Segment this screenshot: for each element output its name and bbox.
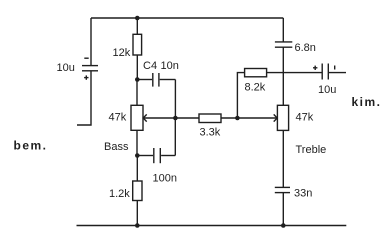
capacitor 10u output: [313, 64, 335, 80]
svg-text:10n: 10n: [161, 60, 179, 72]
wire left rail upper: [90, 18, 92, 66]
svg-text:100n: 100n: [153, 173, 177, 185]
svg-text:bem.: bem.: [14, 139, 48, 153]
svg-text:10u: 10u: [57, 62, 75, 74]
wire left rail lower to input stub: [77, 71, 91, 125]
wire 3.3k to 8.2k junction: [221, 117, 237, 119]
wire output terminal: [329, 72, 346, 74]
potentiometer Bass 47k: [131, 80, 143, 156]
svg-text:Bass: Bass: [104, 141, 129, 153]
junction wiper / C4-100n rail: [173, 116, 178, 121]
wire 33n to ground bus: [282, 193, 284, 226]
capacitor 33n: [275, 187, 290, 192]
wire right rail mid: [282, 47, 284, 105]
svg-text:8.2k: 8.2k: [245, 82, 266, 94]
resistor 12k: [133, 18, 142, 80]
junction 1.2k / ground bus: [135, 223, 140, 228]
junction bass pot / 100n: [135, 153, 140, 158]
wire C4 to wiper rail: [174, 80, 176, 119]
capacitor 6.8n: [275, 42, 292, 47]
wire ground bus: [77, 225, 347, 227]
svg-text:3.3k: 3.3k: [200, 127, 221, 139]
wire 8.2k left lead: [237, 73, 244, 118]
wire 8.2k to output node: [267, 72, 284, 74]
svg-text:1.2k: 1.2k: [109, 188, 130, 200]
svg-text:47k: 47k: [296, 111, 314, 123]
svg-text:kim.: kim.: [352, 95, 381, 109]
wire top bus: [91, 17, 283, 19]
capacitor 100n: [137, 148, 175, 163]
junction top bus / 12k: [135, 16, 140, 21]
wire wiper rail to 3.3k: [175, 117, 199, 119]
resistor 3.3k: [199, 114, 221, 123]
junction 3.3k / 8.2k: [235, 116, 240, 121]
svg-text:Treble: Treble: [296, 144, 327, 156]
svg-text:33n: 33n: [294, 188, 312, 200]
capacitor 10u input: [82, 58, 98, 80]
wire 100n to wiper rail: [174, 118, 176, 156]
wire wiper to treble arrow: [237, 114, 277, 121]
potentiometer Treble 47k: [277, 105, 288, 187]
resistor 8.2k: [245, 69, 267, 77]
wire output node to coupling cap: [283, 72, 321, 74]
resistor 1.2k: [133, 156, 142, 226]
junction 12k / C4 / bass pot: [135, 77, 140, 82]
svg-text:C4: C4: [143, 60, 157, 72]
svg-text:10u: 10u: [318, 84, 336, 96]
svg-text:47k: 47k: [109, 112, 127, 124]
capacitor C4 10n: [137, 73, 175, 87]
junction treble branch / ground bus: [281, 223, 286, 228]
wire bass wiper arrow: [143, 114, 175, 121]
svg-text:6.8n: 6.8n: [295, 42, 316, 54]
svg-text:12k: 12k: [113, 47, 131, 59]
wire right rail top: [282, 18, 284, 42]
